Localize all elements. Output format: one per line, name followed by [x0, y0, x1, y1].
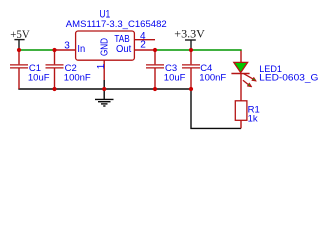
svg-text:1k: 1k — [248, 113, 258, 124]
svg-text:LED-0603_G: LED-0603_G — [259, 72, 318, 83]
svg-text:GND: GND — [100, 38, 111, 56]
svg-text:+3.3V: +3.3V — [174, 27, 205, 41]
svg-text:10uF: 10uF — [28, 73, 50, 84]
svg-text:100nF: 100nF — [64, 73, 91, 84]
svg-text:In: In — [77, 44, 85, 55]
svg-text:1: 1 — [96, 63, 107, 69]
svg-text:AMS1117-3.3_C165482: AMS1117-3.3_C165482 — [66, 19, 167, 30]
svg-text:10uF: 10uF — [164, 73, 186, 84]
svg-text:Out: Out — [116, 44, 131, 55]
svg-text:2: 2 — [140, 40, 146, 51]
svg-text:3: 3 — [64, 40, 70, 51]
svg-text:100nF: 100nF — [199, 73, 226, 84]
